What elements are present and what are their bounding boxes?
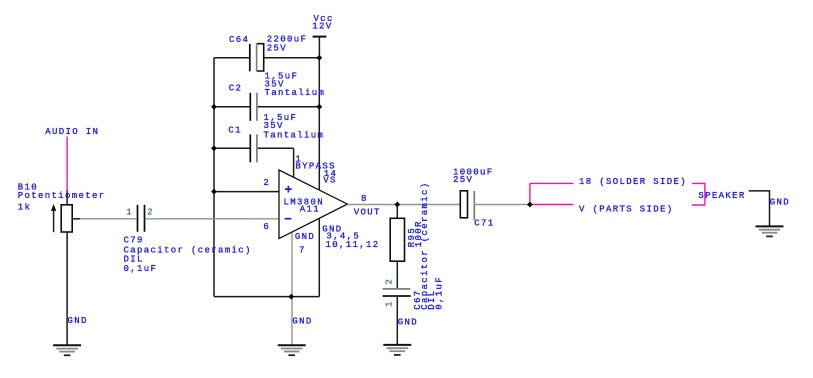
svg-text:GND: GND xyxy=(770,198,790,208)
power Vcc symbol xyxy=(312,14,333,58)
wire VOUT to R95 xyxy=(396,205,398,219)
svg-text:6: 6 xyxy=(263,222,270,232)
resistor R95 xyxy=(390,218,424,261)
svg-text:C64: C64 xyxy=(229,35,249,45)
wire pin 2 xyxy=(214,191,279,193)
wire C2 right xyxy=(257,106,320,108)
node junction C2 left xyxy=(211,104,217,110)
wire audio in (pink) xyxy=(66,137,68,191)
svg-text:C71: C71 xyxy=(474,219,494,229)
wire bottom rail xyxy=(214,296,319,298)
svg-text:C1: C1 xyxy=(228,126,242,136)
wire pot to C79 (gray) xyxy=(80,218,136,220)
svg-text:25V: 25V xyxy=(453,175,473,185)
capacitor C1 xyxy=(228,113,324,163)
node junction pin7 rail xyxy=(288,294,294,300)
wire pink top to solder side xyxy=(530,182,574,184)
svg-text:0,1uF: 0,1uF xyxy=(434,276,444,310)
svg-text:Tantalium: Tantalium xyxy=(264,131,325,141)
wire pink bottom to parts side xyxy=(530,204,574,206)
svg-text:SPEAKER: SPEAKER xyxy=(698,191,745,201)
node junction C64/Vcc xyxy=(316,55,322,61)
svg-text:C79: C79 xyxy=(124,235,144,245)
wire C79 to op-amp pin 6 (gray) xyxy=(145,218,279,220)
svg-text:V (PARTS SIDE): V (PARTS SIDE) xyxy=(579,205,674,215)
svg-text:A11: A11 xyxy=(300,204,320,214)
wire C1 right xyxy=(257,147,294,149)
wire C67 to ground xyxy=(396,296,398,345)
node junction C2/Vcc xyxy=(316,104,322,110)
wire C71 to node (gray) xyxy=(474,204,530,206)
svg-text:12V: 12V xyxy=(312,22,332,32)
wire pins 3,4,5,10,11,12 to rail xyxy=(318,218,320,296)
potentiometer B10 xyxy=(18,182,106,232)
capacitor C71 xyxy=(453,167,495,228)
svg-text:GND: GND xyxy=(292,316,312,326)
svg-text:Tantalium: Tantalium xyxy=(265,88,326,98)
wire right column Vcc to pin 14 xyxy=(318,58,320,190)
wire VOUT (gray) xyxy=(347,204,460,206)
wire R95 to C67 xyxy=(396,261,398,289)
capacitor C64 xyxy=(229,35,307,72)
wire pin 7 (gray) xyxy=(291,232,293,296)
svg-text:GND: GND xyxy=(398,317,418,327)
ground C67 xyxy=(383,345,411,355)
capacitor C67 xyxy=(383,182,445,310)
svg-text:AUDIO IN: AUDIO IN xyxy=(45,127,99,137)
node junction VOUT/R95 xyxy=(394,202,400,208)
node junction pin2 xyxy=(211,189,217,195)
capacitor C79 xyxy=(124,205,252,274)
svg-text:8: 8 xyxy=(361,194,368,204)
wire audio in to pot xyxy=(66,190,68,205)
node junction speaker xyxy=(527,202,533,208)
svg-text:VS: VS xyxy=(323,176,337,186)
svg-text:2: 2 xyxy=(263,178,270,188)
wire left column C64 to bottom rail xyxy=(213,58,215,297)
svg-text:2: 2 xyxy=(385,278,395,285)
wire pot wiper stub xyxy=(73,218,80,220)
ground pot xyxy=(53,345,81,355)
svg-text:2: 2 xyxy=(147,208,154,218)
svg-text:25V: 25V xyxy=(267,44,287,54)
svg-text:GND: GND xyxy=(295,232,315,242)
wire C1 left xyxy=(214,147,250,149)
wire pin 7 ground stem (gray) xyxy=(291,297,293,346)
ground speaker xyxy=(756,226,784,236)
wire speaker to ground xyxy=(749,191,770,227)
node junction C1 left xyxy=(211,145,217,151)
wire pink riser xyxy=(529,183,531,204)
svg-text:18 (SOLDER SIDE): 18 (SOLDER SIDE) xyxy=(579,177,687,187)
svg-text:1: 1 xyxy=(385,300,395,307)
svg-text:Potentiometer: Potentiometer xyxy=(18,191,106,201)
svg-text:1: 1 xyxy=(126,208,133,218)
svg-text:1k: 1k xyxy=(18,203,32,213)
svg-text:C2: C2 xyxy=(229,84,243,94)
svg-text:GND: GND xyxy=(68,316,88,326)
op-amp A11 LM380N xyxy=(279,170,347,239)
wire C2 left xyxy=(214,106,250,108)
ground pin7 xyxy=(278,345,306,355)
wire C64 right xyxy=(264,57,320,59)
wire pot bottom to ground xyxy=(66,232,68,345)
capacitor C2 xyxy=(229,71,325,120)
svg-text:VOUT: VOUT xyxy=(354,207,381,217)
wire pin 1 bypass xyxy=(293,148,295,177)
svg-text:0,1uF: 0,1uF xyxy=(124,264,158,274)
svg-text:10,11,12: 10,11,12 xyxy=(326,240,380,250)
speaker connector bracket (pink) xyxy=(692,183,705,205)
wire C64 left xyxy=(214,57,250,59)
svg-text:7: 7 xyxy=(299,245,306,255)
